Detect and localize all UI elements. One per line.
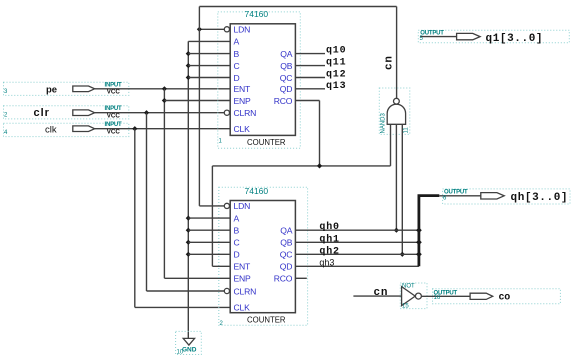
wire cn down to NAND output (396, 7, 398, 99)
svg-text:qh3: qh3 (319, 257, 334, 267)
bubble CLRN1 (224, 110, 229, 115)
svg-text:OUTPUT: OUTPUT (444, 190, 468, 196)
wire LDN1 (199, 28, 224, 30)
svg-text:OUTPUT: OUTPUT (420, 31, 444, 37)
wire clk to CLK1 (95, 128, 231, 130)
wire C2 (188, 241, 230, 243)
wire ENT2 (212, 265, 230, 267)
svg-text:C: C (234, 238, 240, 248)
svg-text:clk: clk (45, 125, 57, 136)
svg-text:clr: clr (34, 107, 50, 119)
svg-text:q11: q11 (326, 58, 346, 69)
svg-text:COUNTER: COUNTER (247, 138, 286, 147)
junction bus/qh2 (416, 251, 422, 257)
input pin clr (4, 106, 129, 120)
svg-text:LDN: LDN (234, 201, 251, 211)
svg-text:cn: cn (374, 287, 389, 299)
wire B2 (188, 229, 230, 231)
svg-text:co: co (499, 292, 511, 303)
svg-text:INPUT: INPUT (105, 122, 123, 128)
output pin co (433, 289, 561, 304)
output pin q1[3..0] (418, 30, 569, 45)
input pin clk (4, 122, 129, 136)
svg-text:GND: GND (182, 347, 197, 354)
svg-text:ENP: ENP (234, 274, 252, 284)
counter U1 74160 (218, 9, 300, 148)
wire QB1 to q11 (295, 65, 325, 67)
svg-text:A: A (234, 37, 240, 47)
svg-text:B: B (234, 49, 240, 59)
svg-text:1: 1 (219, 139, 223, 145)
wire clr to CLRN2 (147, 290, 225, 292)
svg-text:74160: 74160 (245, 186, 269, 196)
wire NAND input3 (to qh2) (401, 124, 403, 254)
wire NAND input1 (from RCO net) (390, 124, 392, 166)
junction NAND in3 / qh2 (400, 252, 405, 257)
wire D2 (188, 253, 230, 255)
svg-text:15: 15 (402, 304, 409, 310)
wire QA1 to q10 (295, 53, 325, 55)
junction LDN1/cn (197, 27, 202, 32)
svg-text:INPUT: INPUT (105, 106, 123, 112)
svg-text:11: 11 (404, 127, 410, 134)
junction NAND in2 / qh0 (394, 228, 399, 233)
svg-text:A: A (234, 213, 240, 223)
wire qh0 (295, 229, 419, 231)
svg-text:D: D (234, 250, 240, 260)
wire C1 (188, 65, 230, 67)
svg-text:QD: QD (280, 84, 293, 94)
svg-text:LDN: LDN (234, 25, 251, 35)
counter U2 74160 (219, 186, 308, 327)
wire A1 (188, 40, 230, 42)
svg-text:ENP: ENP (234, 96, 252, 106)
svg-text:RCO: RCO (274, 274, 293, 284)
wire cn to NOT input (353, 295, 401, 297)
wire pe to ENT1 (95, 88, 231, 90)
junction B2 (186, 228, 191, 233)
wire ABCD vertical (to ground) (187, 41, 189, 338)
svg-text:qh[3..0]: qh[3..0] (511, 192, 569, 204)
output pin qh[3..0] (439, 189, 570, 204)
wire RCO1 down (319, 101, 321, 166)
bubble CLRN2 (224, 288, 229, 293)
svg-text:CLK: CLK (234, 303, 251, 313)
junction C1 (186, 63, 191, 68)
wire RCO2 stub (295, 277, 306, 279)
bubble LDN2 (224, 203, 229, 208)
svg-text:CLK: CLK (234, 124, 251, 134)
bus qh[3..0] (419, 196, 439, 267)
svg-text:QC: QC (280, 73, 293, 83)
svg-text:qh2: qh2 (319, 245, 339, 257)
wire clk vertical (134, 129, 136, 308)
wire QD1 to q13 (295, 88, 325, 90)
wire qh1 (295, 241, 419, 243)
svg-text:RCO: RCO (274, 96, 293, 106)
wire D1 (188, 77, 230, 79)
svg-text:ENT: ENT (234, 84, 252, 94)
ground symbol (176, 331, 202, 355)
junction A2 (186, 216, 191, 221)
wire clr to CLRN1 (95, 112, 224, 114)
svg-text:qh1: qh1 (319, 233, 339, 245)
svg-text:QA: QA (280, 226, 292, 236)
wire RCO1 horizontal stub (295, 100, 319, 102)
svg-text:QA: QA (280, 49, 292, 59)
svg-text:QB: QB (280, 238, 292, 248)
NOT gate (400, 283, 427, 310)
svg-text:INPUT: INPUT (105, 82, 123, 88)
wire cn vertical left (198, 7, 200, 206)
junction B1 (186, 51, 191, 56)
svg-text:CLRN: CLRN (234, 286, 257, 296)
svg-text:pe: pe (46, 84, 57, 95)
svg-text:VCC: VCC (107, 112, 121, 119)
NAND gate NAND3 (379, 88, 410, 134)
junction pe/ENP1 (162, 98, 167, 103)
wire pe vertical (163, 89, 165, 278)
junction pe/ENT1 (162, 86, 167, 91)
svg-text:QC: QC (280, 250, 293, 260)
wire NOT output to co (422, 295, 471, 297)
wire qh3 (295, 265, 419, 267)
wire A2 (188, 217, 230, 219)
svg-text:D: D (234, 73, 240, 83)
junction clr (144, 110, 149, 115)
svg-text:QD: QD (280, 262, 293, 272)
svg-text:4: 4 (4, 130, 8, 136)
junction C2 (186, 240, 191, 245)
wire pe to ENP1 (164, 100, 230, 102)
wire RCO1 down to ENT2 (211, 166, 213, 266)
wire clk to CLK2 (135, 306, 230, 308)
svg-text:74160: 74160 (245, 9, 269, 19)
svg-text:ENT: ENT (234, 262, 252, 272)
junction bus/qh0 (416, 227, 422, 233)
svg-text:CLRN: CLRN (234, 108, 257, 118)
svg-text:16: 16 (434, 295, 441, 301)
svg-text:VCC: VCC (107, 128, 121, 135)
junction D2 (186, 252, 191, 257)
svg-text:C: C (234, 61, 240, 71)
svg-text:VCC: VCC (107, 89, 121, 96)
svg-text:NAND3: NAND3 (381, 112, 387, 133)
wire NAND input2 (to qh0) (395, 124, 397, 230)
svg-text:NOT: NOT (402, 284, 415, 290)
junction D1 (186, 75, 191, 80)
svg-text:B: B (234, 226, 240, 236)
svg-text:q10: q10 (326, 46, 346, 57)
junction clk (132, 126, 137, 131)
svg-text:q12: q12 (326, 70, 346, 81)
input pin pe (4, 82, 129, 95)
svg-text:10: 10 (177, 350, 184, 356)
wire clr vertical (146, 113, 148, 291)
svg-text:q1[3..0]: q1[3..0] (486, 33, 544, 45)
svg-text:2: 2 (4, 113, 8, 119)
junction bus/qh1 (416, 239, 422, 245)
svg-text:QB: QB (280, 61, 292, 71)
bubble LDN1 (224, 27, 229, 32)
wire RCO1 net horizontal (212, 165, 390, 167)
junction RCO1 (317, 163, 322, 168)
svg-text:COUNTER: COUNTER (247, 315, 286, 324)
wire QC1 to q12 (295, 77, 325, 79)
wire cn top (199, 6, 396, 8)
svg-text:qh0: qh0 (319, 221, 339, 233)
svg-text:3: 3 (4, 89, 8, 95)
wire pe to ENP2 (164, 277, 230, 279)
svg-text:q13: q13 (326, 81, 346, 92)
wire LDN2 (199, 205, 224, 207)
svg-text:2: 2 (220, 321, 224, 327)
wire qh2 (295, 253, 419, 255)
svg-text:cn: cn (384, 55, 396, 70)
wire B1 (188, 53, 230, 55)
